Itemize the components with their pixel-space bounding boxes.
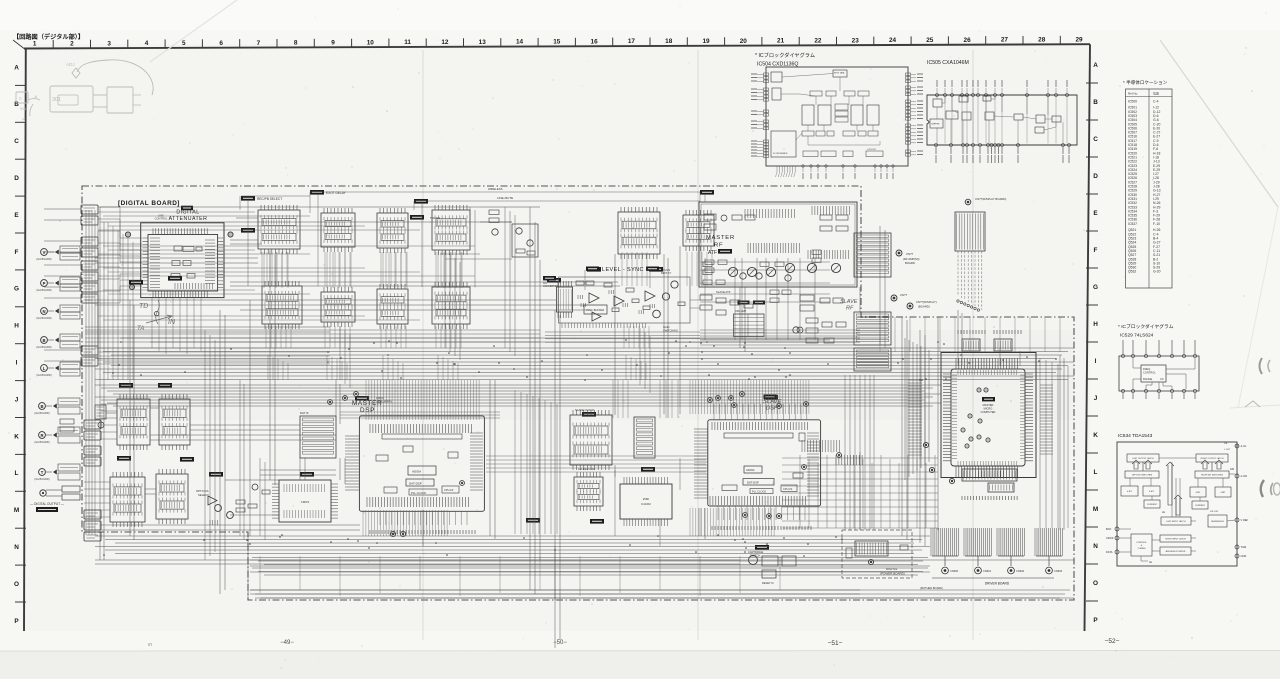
vertical drops from blocks row1 to buses — [261, 252, 263, 286]
svg-text:189: 189 — [1230, 468, 1235, 471]
mid band extra lines — [85, 329, 540, 331]
inter-row vertical drops — [263, 252, 265, 288]
IC507 outside test points — [929, 467, 934, 472]
svg-text:F: F — [1094, 247, 1098, 254]
IC505 bottom rotated pin labels — [935, 155, 937, 163]
wire label stubs right of IC507 — [1040, 385, 1053, 454]
svg-text:Ref.No.: Ref.No. — [1128, 92, 1138, 96]
svg-text:−50−: −50− — [553, 640, 567, 646]
svg-text:K: K — [1093, 432, 1098, 439]
svg-text:V REF: V REF — [1241, 518, 1249, 522]
svg-text:LEFT BIT SWITCHES: LEFT BIT SWITCHES — [1132, 474, 1153, 476]
svg-text:ADDRESS POINTER: ADDRESS POINTER — [1166, 550, 1186, 553]
svg-text:29: 29 — [1075, 36, 1083, 43]
IC513 block row2 b — [321, 292, 355, 322]
slave dsp pin band top — [712, 422, 808, 430]
svg-text:I: I — [16, 360, 18, 367]
IC504 outer box — [766, 67, 908, 166]
wires below level sync — [545, 331, 700, 333]
bus bundle upper-mid y385-408 — [95, 384, 941, 386]
IC534 right pins — [1235, 444, 1239, 448]
right border — [1085, 44, 1091, 631]
horizontal bus group mid — [95, 347, 1074, 349]
master dsp test points — [390, 531, 395, 536]
svg-text:G: G — [1093, 284, 1098, 291]
IC504 latch row — [810, 91, 822, 96]
svg-text:4 BIT: 4 BIT — [1196, 492, 1202, 494]
circled test points right of master rf — [896, 250, 902, 256]
svg-text:F-10: F-10 — [1153, 222, 1160, 226]
svg-text:19L 199: 19L 199 — [1210, 511, 1219, 513]
svg-text:LEFT OUTPUT LATCH: LEFT OUTPUT LATCH — [1132, 457, 1154, 460]
IC driver small parts — [95, 405, 106, 419]
slave rf ribbon connector 1 — [854, 312, 891, 345]
left edge connectors — [81, 205, 98, 214]
svg-text:P: P — [1093, 617, 1098, 624]
level sync opamp 3 — [645, 291, 655, 301]
IC slave clock select block — [570, 415, 612, 465]
svg-text:K: K — [14, 433, 19, 440]
extra right-side vertical drops — [1039, 358, 1041, 528]
master rf trimmers — [728, 267, 737, 276]
svg-text:A: A — [14, 64, 19, 71]
IC511 block row1 e — [618, 212, 660, 254]
svg-text:LEFT INPUT LATCH: LEFT INPUT LATCH — [1166, 520, 1186, 523]
IC504 bottom pins — [776, 166, 778, 172]
vertical bundle x845-874 — [844, 375, 846, 530]
DAT-IF ribbon connector — [300, 416, 336, 458]
svg-text:4 BIT: 4 BIT — [1221, 492, 1227, 494]
svg-text:23: 23 — [852, 37, 860, 44]
svg-text:IC529 74LS624: IC529 74LS624 — [1120, 333, 1154, 339]
master rf inner combs — [748, 243, 799, 253]
IC507 bottom pin combs — [962, 469, 1017, 481]
svg-text:L: L — [1094, 469, 1098, 476]
ruler corner top-left — [13, 40, 24, 49]
svg-text:O: O — [1093, 580, 1098, 587]
IC524 dig-out latch block — [159, 399, 190, 445]
fan wires from IC500 to left connectors — [98, 207, 142, 238]
svg-text:REFERENCE: REFERENCE — [1211, 521, 1224, 523]
MASTER RF box — [699, 202, 857, 287]
faint fold diagonal right — [1160, 40, 1278, 207]
fine wires upper-left half — [98, 211, 255, 213]
svg-text:25: 25 — [926, 37, 934, 44]
misc transistor cluster below ic531 — [252, 484, 258, 490]
IC513 block row2 c — [377, 289, 408, 324]
svg-text:A: A — [1093, 62, 1098, 69]
svg-text:N: N — [1093, 543, 1098, 550]
mesh right-mid area — [799, 455, 801, 528]
IC504 bottom rotated pin labels — [802, 173, 804, 179]
svg-text:IC500: IC500 — [1128, 99, 1137, 103]
IC522 sram block — [279, 480, 331, 522]
wires level-sync to slave rf — [690, 299, 700, 301]
block under slave clock — [574, 477, 603, 506]
IC534 address pointer — [1160, 547, 1191, 555]
IC500 digital attenuator — [141, 223, 224, 298]
IC510 block row1 c — [377, 213, 408, 248]
top ruler line — [24, 44, 1090, 48]
level sync opamp 4 — [592, 312, 601, 321]
level sync misc small boxes — [576, 281, 584, 285]
svg-text:A-OL: A-OL — [1241, 444, 1248, 448]
wire bundle between master rf and slave dsp — [700, 329, 860, 331]
svg-text:L OUT: L OUT — [1224, 449, 1231, 451]
IC504 left pin label dashes — [751, 73, 757, 75]
strengthen lower bus bundle — [252, 557, 928, 559]
long lower wires y558-600 — [250, 559, 1074, 561]
svg-text:4 BIT: 4 BIT — [1149, 491, 1155, 493]
display connector pin circles — [957, 300, 959, 302]
svg-text:C: C — [1093, 136, 1098, 143]
slave dsp right pin column — [807, 433, 819, 496]
master dsp pin band bottom — [367, 497, 469, 507]
vref buffer box — [584, 305, 607, 314]
IC504 io interface — [771, 131, 796, 157]
binder hole marks right edge — [1260, 358, 1263, 374]
IC505 bottom pins — [935, 144, 938, 147]
IC507 label — [982, 397, 995, 401]
svg-text:RIGHT INPUT LATCH: RIGHT INPUT LATCH — [1165, 537, 1186, 540]
slave rf small parts — [800, 295, 814, 301]
svg-text:24: 24 — [889, 37, 897, 44]
master dsp inner boxes — [382, 434, 462, 439]
svg-text:位置: 位置 — [1153, 91, 1159, 96]
svg-text:A-OR: A-OR — [1241, 474, 1248, 478]
IC500 label — [181, 206, 193, 211]
IC reference labels — [241, 196, 255, 201]
svg-text:−51−: −51− — [828, 640, 843, 647]
IC521 256k dram — [620, 484, 672, 519]
svg-text:GND: GND — [1241, 554, 1247, 558]
svg-text:M: M — [1093, 506, 1098, 513]
svg-text:IC537: IC537 — [1128, 222, 1137, 226]
slave rf amp grid wires — [700, 261, 830, 263]
svg-text:Q532: Q532 — [1128, 270, 1136, 274]
slave dsp test points — [708, 398, 713, 403]
level sync outline — [559, 277, 691, 323]
pencil sketch — [16, 92, 28, 103]
driver board pin groups — [931, 528, 958, 556]
mid ribbon connector — [634, 417, 655, 458]
more long verticals left-mid — [204, 330, 206, 560]
stub texture on level sync bottom — [562, 323, 646, 328]
svg-text:−49−: −49− — [280, 640, 294, 646]
svg-text:4 BIT: 4 BIT — [1127, 491, 1133, 493]
svg-text:* ICブロックダイヤグラム: * ICブロックダイヤグラム — [1118, 323, 1174, 330]
svg-text:C-4: C-4 — [1153, 99, 1159, 103]
long vertical wires — [99, 207, 101, 560]
pin combs left of slave dsp bottom — [802, 440, 840, 452]
digital output optical connector — [40, 490, 46, 496]
display connector dashed drop wires — [957, 251, 959, 296]
svg-text:FREQ: FREQ — [1143, 367, 1150, 371]
horizontal mesh above master dsp — [340, 411, 500, 413]
wire label stubs left of IC507 — [908, 380, 922, 455]
IC510 block row1 b — [321, 213, 355, 247]
vertical bundle right x905-930 — [904, 338, 906, 480]
fan wires lower-left connectors — [101, 403, 117, 405]
slave dsp inner boxes — [724, 433, 793, 438]
svg-text:26: 26 — [964, 37, 972, 44]
slave rf amp area right of level sync — [734, 314, 765, 337]
reset IC cluster — [749, 556, 758, 565]
svg-text:P: P — [14, 618, 19, 625]
svg-text:28: 28 — [1038, 37, 1046, 44]
verticals dropping to bottom edge — [259, 556, 261, 593]
deep pb/up ribbon connector — [854, 233, 891, 277]
svg-text:22: 22 — [814, 38, 822, 45]
IC504 mode box — [771, 72, 782, 82]
IC534 right input latch — [1160, 535, 1191, 542]
power small parts — [846, 548, 852, 558]
IC504 small row — [802, 131, 814, 136]
IC531 opt/coa select block — [156, 474, 188, 519]
svg-text:G: G — [14, 286, 19, 293]
vertical bundle x515-560 — [514, 390, 516, 534]
horizontal wires upper area — [100, 206, 480, 208]
svg-text:I: I — [1095, 358, 1097, 365]
IC511 block row1 f — [683, 215, 714, 246]
IC506 label — [586, 267, 599, 271]
driver board bracket — [932, 577, 1054, 579]
svg-text:H: H — [14, 323, 19, 330]
IC534 big arrows — [1132, 460, 1140, 469]
IC513 block row2 a — [262, 286, 302, 324]
paper speckles — [517, 137, 520, 140]
IC534 current sources — [1144, 500, 1160, 508]
level sync opamp 2 — [614, 296, 624, 306]
svg-text:CONTROL: CONTROL — [1136, 542, 1147, 544]
IC534 left output latch — [1127, 454, 1159, 462]
level sync transistors — [671, 281, 678, 288]
svg-text:19: 19 — [702, 38, 710, 45]
SLAVE DSP label — [764, 395, 777, 399]
faint fold diagonal top-left — [150, 0, 237, 62]
IC534 control timing — [1131, 534, 1152, 556]
IC504 bottom pin rotated labels — [776, 172, 778, 177]
svg-text:BCK: BCK — [1106, 527, 1112, 531]
IC505 label in master rf — [718, 249, 732, 254]
svg-text:G-20: G-20 — [1153, 270, 1161, 274]
verticals upper-left between connectors and IC500 — [107, 222, 109, 380]
IC505 long internal verticals — [944, 97, 946, 144]
IC508 IC509 labels — [738, 301, 750, 305]
IC505 inner boxes — [933, 99, 942, 107]
IC505 top pins — [936, 94, 939, 97]
IC507 inner test point circles — [977, 388, 981, 392]
slave rf amp transistors — [740, 273, 746, 279]
junction dots — [327, 361, 329, 363]
IC504 left pin squares — [764, 73, 769, 76]
slave rf amp small boxes — [705, 260, 714, 264]
digital power board dashed box — [842, 530, 912, 578]
IC505 inner wires — [936, 95, 938, 99]
svg-text:27: 27 — [1001, 37, 1009, 44]
svg-text:20: 20 — [740, 38, 748, 45]
svg-text:H: H — [1093, 321, 1098, 328]
drops from dsp bands — [365, 380, 367, 420]
svg-text:−52−: −52− — [1105, 638, 1120, 645]
display board connector comb — [955, 212, 985, 251]
slave dsp drops below — [718, 506, 805, 520]
IC534 right bit switches — [1195, 471, 1229, 478]
IC504 right pin squares — [906, 73, 911, 76]
tiny label dash texture near pin bands — [369, 530, 371, 534]
line mute discrete cluster — [512, 224, 538, 257]
IC516 label — [646, 267, 659, 271]
horizontal bus group lower — [95, 535, 930, 537]
wire stubs left column to board — [44, 208, 81, 210]
master dsp drops below — [380, 511, 467, 525]
slave dsp pin band bottom — [710, 496, 806, 505]
IC507 master micro computer — [941, 353, 1036, 478]
IC534 left input latch — [1161, 517, 1191, 525]
svg-text:21: 21 — [777, 38, 785, 45]
IC534 passive dividers — [1121, 486, 1138, 496]
svg-text:D: D — [14, 175, 19, 182]
IC534 reference source — [1208, 515, 1227, 527]
IC500 test points — [228, 232, 233, 237]
grid wires top band — [239, 196, 241, 210]
level sync D/A DIP — [557, 287, 573, 312]
IC504 center stack — [835, 104, 848, 110]
IC534 left bit switches — [1125, 471, 1159, 478]
svg-text:RANGE: RANGE — [1143, 377, 1152, 381]
svg-text:CONTROL: CONTROL — [1143, 371, 1156, 375]
left mid wire fan to connectors — [98, 209, 330, 348]
svg-text:T IMING: T IMING — [1137, 548, 1146, 550]
IC529 freq control box — [1141, 365, 1166, 382]
svg-text:M: M — [14, 507, 19, 514]
lower-left circled pins — [39, 403, 46, 410]
svg-text:J: J — [1094, 395, 1098, 402]
IC507 top connector combs — [962, 339, 980, 351]
scan seam lines — [422, 50, 424, 640]
master rf double border — [701, 204, 855, 285]
left edge vertical bus pair — [85, 210, 87, 535]
IC529 outer box — [1119, 356, 1199, 391]
IC536 label — [543, 276, 556, 280]
master dsp right pin column — [470, 433, 483, 490]
svg-text:CX: CX — [1160, 377, 1164, 381]
IC523 dig-out driver block — [117, 399, 150, 445]
svg-text:E: E — [1093, 210, 1098, 217]
IC504 inner wires — [782, 74, 833, 78]
digital board dashed outline — [82, 186, 1074, 600]
optical input parts — [215, 505, 222, 512]
slave dsp drops above — [714, 404, 807, 420]
svg-text:LE: LE — [1162, 511, 1165, 514]
svg-text:UROK: UROK — [1106, 536, 1114, 540]
IC500 inner pin label columns — [150, 238, 160, 288]
svg-text:RIGHT OUTPUT LATCH: RIGHT OUTPUT LATCH — [1201, 457, 1224, 460]
IC504 input sel box — [772, 88, 781, 100]
wires crossing y317 dashline right — [879, 317, 881, 352]
mesh between dsps and buses — [612, 380, 614, 418]
svg-text:B: B — [1093, 99, 1098, 106]
master dsp pin band top — [370, 424, 472, 433]
svg-text:ın: ın — [148, 642, 152, 648]
IC534 wires — [1235, 445, 1239, 447]
svg-text:RIGHT BIT SWITCHES: RIGHT BIT SWITCHES — [1201, 474, 1223, 476]
digital power board connector — [855, 541, 888, 556]
svg-text:F: F — [15, 249, 19, 256]
photocopy tone overlay — [24, 44, 1090, 631]
svg-text:N: N — [14, 544, 19, 551]
IC514 block row2 d — [432, 287, 470, 324]
drops from IC500 bottom — [151, 298, 153, 348]
master rf pin hatch top — [745, 209, 794, 218]
IC512 block row1 d — [432, 210, 470, 250]
svg-text:D: D — [1093, 173, 1098, 180]
IC504 bottom boxes — [803, 151, 818, 157]
IC504 input data latch box — [833, 70, 847, 77]
svg-text:* 半導体ロケーション: * 半導体ロケーション — [1123, 79, 1168, 86]
svg-text:LE: LE — [1149, 561, 1152, 564]
master dsp outer box — [359, 416, 484, 511]
svg-text:J: J — [15, 396, 19, 403]
svg-text:B: B — [14, 101, 19, 108]
svg-text:O: O — [14, 581, 19, 588]
IC510 block row1 a — [258, 210, 300, 249]
IC534 outer box — [1117, 442, 1237, 566]
svg-text:DATA: DATA — [1106, 550, 1113, 554]
svg-text:IC534 TDA1543: IC534 TDA1543 — [1118, 433, 1153, 439]
left border — [24, 49, 26, 632]
master rf small boxes — [704, 214, 716, 220]
IC534 right output latch — [1196, 454, 1228, 462]
IC530 d/b-in amp block — [110, 477, 145, 522]
IC505 outer box — [927, 95, 1077, 145]
master dsp left pin column — [345, 436, 359, 490]
location table — [1126, 89, 1173, 288]
slave dsp left pin column — [694, 429, 708, 498]
IC534 left pins — [1115, 527, 1119, 531]
slave rf ribbon connector 2 — [854, 348, 891, 371]
svg-text:L: L — [15, 470, 19, 477]
slave dsp outer box — [708, 420, 821, 506]
svg-text:E: E — [14, 212, 19, 219]
IC529 pins top — [1121, 354, 1124, 357]
left GA-board circled pins — [41, 249, 48, 256]
svg-text:CURRENT: CURRENT — [1195, 505, 1206, 507]
level sync opamp 1 — [589, 293, 599, 303]
svg-text:THM: THM — [1241, 545, 1247, 549]
horizontal group y456-472 — [486, 455, 706, 457]
svg-text:CURRENT: CURRENT — [1147, 504, 1158, 506]
IC504 big blocks row — [802, 105, 814, 125]
